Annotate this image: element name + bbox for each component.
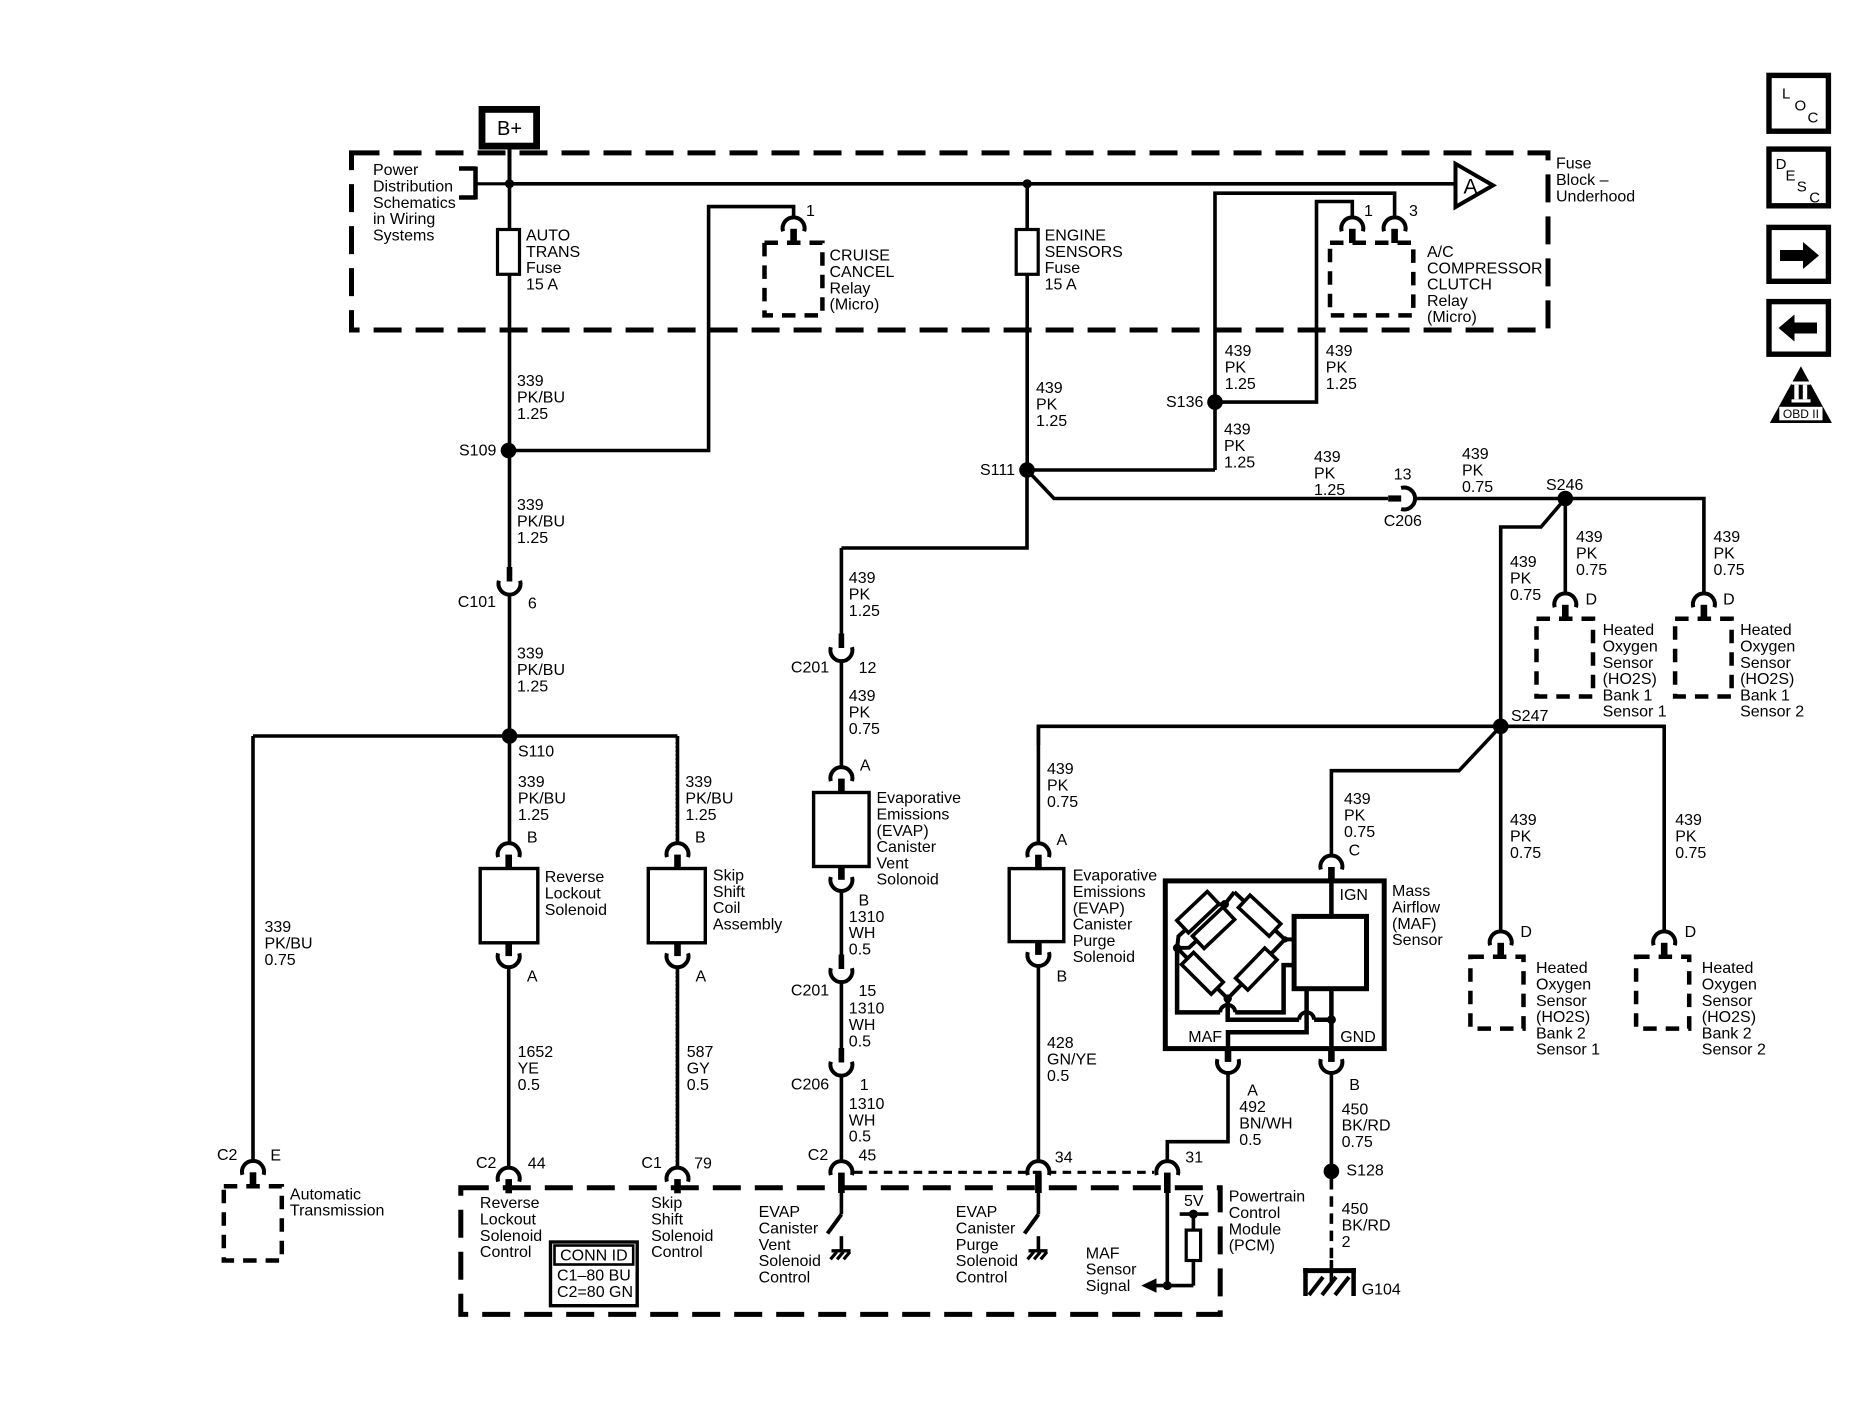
svg-text:12: 12 xyxy=(859,660,877,677)
wire skip shift to PCM C1-79 xyxy=(676,967,680,1168)
svg-text:MAF: MAF xyxy=(1188,1029,1222,1046)
svg-text:587: 587 xyxy=(687,1044,714,1061)
svg-text:A: A xyxy=(1247,1083,1258,1100)
svg-text:O: O xyxy=(1795,98,1807,115)
svg-text:34: 34 xyxy=(1055,1149,1073,1166)
svg-text:15 A: 15 A xyxy=(1045,276,1077,293)
wire S111 down-left to EVAP vent column xyxy=(841,470,1027,548)
svg-text:WH: WH xyxy=(849,1017,876,1034)
svg-text:(EVAP): (EVAP) xyxy=(877,823,929,840)
svg-text:(MAF): (MAF) xyxy=(1392,916,1436,933)
svg-text:B: B xyxy=(527,830,538,847)
svg-text:CONN ID: CONN ID xyxy=(560,1248,628,1265)
svg-text:C: C xyxy=(1808,110,1819,127)
resistor MAF pullup xyxy=(1186,1230,1200,1260)
svg-text:339: 339 xyxy=(517,646,544,663)
wire MAF sensor signal with arrow xyxy=(1166,1187,1170,1286)
wire C201-15 to C206-1 xyxy=(840,982,844,1048)
svg-text:Bank 1: Bank 1 xyxy=(1603,687,1653,704)
svg-text:0.75: 0.75 xyxy=(1342,1134,1373,1151)
svg-text:B: B xyxy=(695,830,706,847)
svg-text:PK: PK xyxy=(1314,466,1336,483)
svg-text:1.25: 1.25 xyxy=(1224,454,1255,471)
svg-text:PK/BU: PK/BU xyxy=(517,390,565,407)
svg-text:79: 79 xyxy=(694,1156,712,1173)
HO2S bank2 sensor1 pin D xyxy=(1490,931,1512,945)
svg-text:0.75: 0.75 xyxy=(1675,845,1706,862)
svg-text:OBD II: OBD II xyxy=(1783,407,1819,421)
wire purge B to PCM pin 34 xyxy=(1037,966,1041,1161)
solenoid EVAP Canister Purge box xyxy=(1009,869,1064,942)
svg-text:PK: PK xyxy=(1036,397,1058,414)
svg-text:PK: PK xyxy=(1462,463,1484,480)
svg-text:Control: Control xyxy=(956,1269,1008,1286)
connector C101 pin 6 xyxy=(507,567,513,582)
icon DESC xyxy=(1769,149,1828,206)
svg-text:WH: WH xyxy=(849,1112,876,1129)
svg-text:C2: C2 xyxy=(217,1147,238,1164)
svg-text:C2: C2 xyxy=(476,1155,497,1172)
svg-text:A: A xyxy=(1463,176,1477,199)
svg-text:1.25: 1.25 xyxy=(517,530,548,547)
svg-text:B: B xyxy=(1349,1077,1360,1094)
relay A/C COMPRESSOR CLUTCH pin 3 xyxy=(1384,217,1406,231)
PCM pin C2-45 xyxy=(830,1161,852,1175)
svg-text:1: 1 xyxy=(806,203,815,220)
svg-text:Solenoid: Solenoid xyxy=(956,1253,1018,1270)
solenoid Reverse Lockout box xyxy=(480,869,538,943)
connector line C2 pins 45-34-31 (dashed) xyxy=(854,1171,1154,1174)
wire to purge solenoid pin A xyxy=(1037,726,1041,843)
splice S136 xyxy=(1207,394,1223,410)
svg-text:Emissions: Emissions xyxy=(877,807,950,824)
svg-text:Sensor: Sensor xyxy=(1392,932,1443,949)
wire S247 diagonal to MAF IGN xyxy=(1331,726,1500,856)
svg-text:C1–80 BU: C1–80 BU xyxy=(557,1267,631,1284)
junction at ENGINE SENSORS fuse tap xyxy=(1023,179,1032,188)
svg-text:0.75: 0.75 xyxy=(1576,562,1607,579)
svg-text:Canister: Canister xyxy=(1073,917,1133,934)
table CONN ID xyxy=(551,1242,638,1306)
svg-text:C2: C2 xyxy=(808,1147,829,1164)
wire S128 to G104 (dashed) xyxy=(1330,1179,1334,1265)
svg-text:0.5: 0.5 xyxy=(687,1077,709,1094)
vent solenoid pin A xyxy=(830,767,852,781)
svg-text:Systems: Systems xyxy=(373,227,434,244)
svg-text:Fuse: Fuse xyxy=(1045,260,1081,277)
svg-text:0.75: 0.75 xyxy=(849,721,880,738)
wire S110 to automatic transmission connector xyxy=(251,736,255,1161)
svg-text:339: 339 xyxy=(685,774,712,791)
wire S110 horizontal xyxy=(253,734,678,738)
HO2S bank2 sensor2 pin D xyxy=(1653,931,1675,945)
splice S246 xyxy=(1558,491,1574,507)
svg-text:PK: PK xyxy=(1326,360,1348,377)
svg-text:Solenoid: Solenoid xyxy=(1073,949,1135,966)
svg-text:Relay: Relay xyxy=(830,280,871,297)
svg-text:0.75: 0.75 xyxy=(1344,824,1375,841)
svg-text:1.25: 1.25 xyxy=(1036,413,1067,430)
wire S111 to S136 riser xyxy=(1027,468,1215,472)
svg-text:D: D xyxy=(1685,924,1697,941)
svg-text:ENGINE: ENGINE xyxy=(1045,228,1106,245)
svg-text:COMPRESSOR: COMPRESSOR xyxy=(1427,260,1543,277)
skip shift coil pin B xyxy=(667,843,689,857)
svg-text:Oxygen: Oxygen xyxy=(1740,639,1795,656)
svg-text:GND: GND xyxy=(1340,1029,1376,1046)
coil Skip Shift Coil Assembly box xyxy=(648,869,705,943)
wire C101 to S110 xyxy=(508,595,512,737)
svg-text:1.25: 1.25 xyxy=(685,807,716,824)
svg-text:Oxygen: Oxygen xyxy=(1603,639,1658,656)
PCM internal vent driver switch xyxy=(840,1193,844,1215)
svg-text:MAF: MAF xyxy=(1086,1245,1120,1262)
svg-text:Bank 1: Bank 1 xyxy=(1740,687,1790,704)
svg-text:PK/BU: PK/BU xyxy=(265,936,313,953)
svg-text:Module: Module xyxy=(1229,1221,1282,1238)
wire AUTO TRANS fuse branch (B+ to S109) xyxy=(508,184,512,451)
svg-text:1: 1 xyxy=(860,1077,869,1094)
svg-text:Solenoid: Solenoid xyxy=(759,1253,821,1270)
svg-text:439: 439 xyxy=(1675,812,1702,829)
svg-text:PK: PK xyxy=(1576,546,1598,563)
svg-text:1310: 1310 xyxy=(849,1001,885,1018)
svg-text:GY: GY xyxy=(687,1061,710,1078)
svg-text:339: 339 xyxy=(518,774,545,791)
svg-text:Automatic: Automatic xyxy=(290,1186,361,1203)
svg-text:S128: S128 xyxy=(1346,1163,1383,1180)
svg-text:492: 492 xyxy=(1239,1099,1266,1116)
splice S110 xyxy=(502,728,518,744)
MAF bridge edge right-bottom with resistor xyxy=(1228,939,1285,998)
wire S109 to C101 xyxy=(508,451,512,568)
MAF bridge resistor R5 (bottom left edge) xyxy=(1182,952,1224,994)
splice S247 xyxy=(1493,719,1509,735)
purge solenoid pin A xyxy=(1027,843,1049,857)
svg-text:Block –: Block – xyxy=(1556,172,1609,189)
svg-text:Heated: Heated xyxy=(1603,622,1655,639)
MAF block GND lead xyxy=(1329,989,1334,1049)
svg-text:0.75: 0.75 xyxy=(1047,794,1078,811)
ground purge driver xyxy=(1029,1249,1048,1252)
splice S111 xyxy=(1019,462,1035,478)
svg-text:Schematics: Schematics xyxy=(373,195,456,212)
svg-text:Sensor 2: Sensor 2 xyxy=(1702,1042,1766,1059)
svg-text:Transmission: Transmission xyxy=(290,1203,385,1220)
svg-text:439: 439 xyxy=(1224,422,1251,439)
svg-text:450: 450 xyxy=(1342,1101,1369,1118)
svg-text:Purge: Purge xyxy=(956,1237,999,1254)
wire S247 to HO2S bank2 sensor1 xyxy=(1499,726,1503,931)
svg-text:0.5: 0.5 xyxy=(849,942,871,959)
svg-text:CLUTCH: CLUTCH xyxy=(1427,277,1492,294)
sensor Mass Airflow (MAF) box xyxy=(1165,881,1384,1049)
svg-text:Sensor: Sensor xyxy=(1740,655,1791,672)
svg-text:45: 45 xyxy=(859,1147,877,1164)
icon forward arrow xyxy=(1769,227,1828,281)
svg-text:1.25: 1.25 xyxy=(1225,376,1256,393)
svg-text:in Wiring: in Wiring xyxy=(373,211,435,228)
svg-text:E: E xyxy=(270,1147,281,1164)
svg-text:1.25: 1.25 xyxy=(1326,376,1357,393)
connector C206 pin 1 xyxy=(839,1048,845,1063)
wire S247 left to EVAP purge column xyxy=(1038,726,1500,745)
svg-text:15: 15 xyxy=(859,983,877,1000)
svg-text:Airflow: Airflow xyxy=(1392,900,1440,917)
svg-text:Canister: Canister xyxy=(759,1221,819,1238)
MAF bridge resistor R4 (bottom right edge) xyxy=(1236,948,1277,990)
wire vent B to C201-15 xyxy=(840,891,844,955)
svg-text:0.75: 0.75 xyxy=(1510,587,1541,604)
svg-text:15 A: 15 A xyxy=(526,276,558,293)
svg-text:S111: S111 xyxy=(980,462,1015,479)
svg-text:Control: Control xyxy=(480,1244,532,1261)
wire MAF A to PCM pin 31 xyxy=(1167,1073,1228,1161)
svg-text:PK: PK xyxy=(1675,829,1697,846)
connector C206 pin 13 xyxy=(1388,495,1401,501)
svg-text:1.25: 1.25 xyxy=(518,807,549,824)
PCM pin C2-44 xyxy=(498,1168,520,1182)
svg-text:D: D xyxy=(1586,592,1598,609)
svg-text:TRANS: TRANS xyxy=(526,244,580,261)
wire main feed bus B+ to arrow A xyxy=(510,182,1456,186)
svg-text:Distribution: Distribution xyxy=(373,179,453,196)
svg-text:Assembly: Assembly xyxy=(713,916,782,933)
svg-text:(Micro): (Micro) xyxy=(830,297,880,314)
svg-text:E: E xyxy=(1786,168,1796,185)
svg-text:Vent: Vent xyxy=(759,1237,792,1254)
svg-text:Emissions: Emissions xyxy=(1073,884,1146,901)
junction at B+ stem and bus xyxy=(505,179,514,188)
svg-text:S136: S136 xyxy=(1166,394,1203,411)
PCM pin 34 xyxy=(1027,1161,1049,1175)
svg-text:Solonoid: Solonoid xyxy=(877,872,939,889)
sensor Heated Oxygen Sensor Bank 1 Sensor 2 dashed box xyxy=(1675,619,1732,697)
svg-text:0.5: 0.5 xyxy=(1047,1068,1069,1085)
svg-text:439: 439 xyxy=(1326,343,1353,360)
svg-text:PK: PK xyxy=(849,705,871,722)
reverse lockout solenoid pin A xyxy=(505,943,512,956)
svg-text:Lockout: Lockout xyxy=(480,1212,537,1229)
svg-text:Control: Control xyxy=(759,1269,811,1286)
automatic transmission dashed box xyxy=(224,1186,282,1260)
relay CRUISE CANCEL pin 1 xyxy=(783,217,805,231)
MAF bridge top edge to parallel pair xyxy=(1225,892,1235,904)
svg-text:C2=80 GN: C2=80 GN xyxy=(557,1284,633,1301)
module Powertrain Control Module dashed box xyxy=(461,1188,1220,1315)
sensor Heated Oxygen Sensor Bank 1 Sensor 1 dashed box xyxy=(1537,619,1594,697)
svg-text:Sensor: Sensor xyxy=(1536,993,1587,1010)
svg-text:44: 44 xyxy=(528,1156,546,1173)
svg-text:439: 439 xyxy=(849,688,876,705)
svg-text:PK: PK xyxy=(1714,546,1736,563)
svg-text:L: L xyxy=(1782,86,1790,103)
svg-text:A: A xyxy=(860,758,871,775)
solenoid EVAP Canister Vent box xyxy=(814,793,870,867)
MAF internal IGN lead xyxy=(1329,881,1334,917)
svg-text:2: 2 xyxy=(1342,1234,1351,1251)
svg-text:Reverse: Reverse xyxy=(545,869,605,886)
wire S136 riser to A/C relay pin 3 xyxy=(1215,193,1395,470)
PCM pin C1-79 xyxy=(667,1168,689,1182)
svg-text:0.75: 0.75 xyxy=(265,952,296,969)
svg-text:Sensor 1: Sensor 1 xyxy=(1603,704,1667,721)
svg-text:BK/RD: BK/RD xyxy=(1342,1218,1391,1235)
svg-text:Sensor: Sensor xyxy=(1603,655,1654,672)
svg-text:Fuse: Fuse xyxy=(526,260,562,277)
svg-text:0.5: 0.5 xyxy=(1239,1132,1261,1149)
svg-text:IGN: IGN xyxy=(1340,887,1368,904)
svg-text:Purge: Purge xyxy=(1073,933,1116,950)
connector C201 pin 12 xyxy=(840,548,844,634)
svg-text:439: 439 xyxy=(1462,446,1489,463)
skip shift coil pin A xyxy=(674,943,681,956)
svg-text:C206: C206 xyxy=(791,1077,829,1094)
svg-text:(Micro): (Micro) xyxy=(1427,309,1477,326)
connector C201 pin 15 xyxy=(839,955,845,970)
svg-text:339: 339 xyxy=(517,373,544,390)
wire S110 to reverse lockout solenoid xyxy=(508,736,512,843)
svg-text:Canister: Canister xyxy=(877,839,937,856)
svg-text:439: 439 xyxy=(1036,380,1063,397)
svg-text:PK: PK xyxy=(1224,438,1246,455)
svg-text:439: 439 xyxy=(1225,343,1252,360)
svg-text:Fuse: Fuse xyxy=(1556,156,1592,173)
svg-text:Vent: Vent xyxy=(877,855,910,872)
wire C206-1 to PCM C2-45 xyxy=(840,1076,844,1162)
svg-text:5V: 5V xyxy=(1184,1193,1204,1210)
svg-text:1.25: 1.25 xyxy=(517,406,548,423)
wire S246 to HO2S bank1 sensor1 xyxy=(1564,499,1568,594)
svg-text:PK/BU: PK/BU xyxy=(517,514,565,531)
svg-text:C201: C201 xyxy=(791,660,829,677)
svg-text:C101: C101 xyxy=(458,594,496,611)
wire cruise relay feed from S109 xyxy=(510,207,794,451)
splice S109 xyxy=(501,443,517,459)
svg-text:A: A xyxy=(1057,832,1068,849)
MAF pin B (ground) xyxy=(1328,1049,1335,1062)
svg-text:1652: 1652 xyxy=(518,1044,554,1061)
svg-text:PK: PK xyxy=(1510,571,1532,588)
splice S128 xyxy=(1324,1164,1340,1180)
icon LOC xyxy=(1769,75,1828,131)
svg-text:Heated: Heated xyxy=(1536,960,1588,977)
svg-text:Control: Control xyxy=(651,1244,703,1261)
svg-text:S247: S247 xyxy=(1511,708,1548,725)
icon back arrow xyxy=(1769,302,1828,355)
svg-text:A/C: A/C xyxy=(1427,244,1454,261)
svg-text:Shift: Shift xyxy=(713,884,746,901)
MAF pin C (IGN) xyxy=(1320,856,1342,870)
svg-text:D: D xyxy=(1723,592,1735,609)
svg-text:CRUISE: CRUISE xyxy=(830,248,890,265)
svg-text:Oxygen: Oxygen xyxy=(1702,977,1757,994)
wire reverse lockout to PCM C2-44 xyxy=(507,967,511,1168)
svg-text:1.25: 1.25 xyxy=(1314,482,1345,499)
MAF bridge edge bottom-left with resistor xyxy=(1177,948,1228,999)
svg-text:439: 439 xyxy=(1714,529,1741,546)
svg-text:EVAP: EVAP xyxy=(956,1204,998,1221)
svg-text:PK: PK xyxy=(1047,778,1069,795)
svg-text:WH: WH xyxy=(849,925,876,942)
svg-text:CANCEL: CANCEL xyxy=(830,264,895,281)
fuse AUTO TRANS 15A xyxy=(498,230,520,275)
svg-text:PK/BU: PK/BU xyxy=(685,791,733,808)
svg-text:(HO2S): (HO2S) xyxy=(1603,671,1657,688)
sensor Heated Oxygen Sensor Bank 2 Sensor 1 dashed box xyxy=(1470,957,1523,1029)
svg-text:EVAP: EVAP xyxy=(759,1204,801,1221)
sensor Heated Oxygen Sensor Bank 2 Sensor 2 dashed box xyxy=(1636,957,1689,1029)
svg-text:Shift: Shift xyxy=(651,1212,684,1229)
wire S136 to A/C relay pin 1 xyxy=(1215,202,1352,403)
svg-text:S: S xyxy=(1797,179,1807,196)
svg-text:Skip: Skip xyxy=(713,868,744,885)
svg-text:C: C xyxy=(1809,190,1820,207)
wire S111 diagonal to C206 xyxy=(1027,470,1388,499)
svg-text:PK/BU: PK/BU xyxy=(517,662,565,679)
svg-text:3: 3 xyxy=(1409,203,1418,220)
svg-text:0.75: 0.75 xyxy=(1462,479,1493,496)
MAF wire bottom vertex to GND lead xyxy=(1228,999,1299,1020)
connector C2 pin E at automatic transmission xyxy=(242,1161,264,1175)
svg-text:Bank 2: Bank 2 xyxy=(1536,1025,1586,1042)
svg-text:C1: C1 xyxy=(641,1155,662,1172)
svg-text:Sensor: Sensor xyxy=(1702,993,1753,1010)
svg-text:S110: S110 xyxy=(518,744,554,761)
relay A/C COMPRESSOR CLUTCH (Micro) dashed box xyxy=(1330,243,1413,316)
icon OBD II triangle xyxy=(1770,366,1832,423)
svg-text:1.25: 1.25 xyxy=(517,678,548,695)
svg-text:C201: C201 xyxy=(791,983,829,1000)
MAF bridge right vertex to block xyxy=(1285,937,1294,941)
svg-text:1.25: 1.25 xyxy=(849,603,880,620)
wire C206 to S246 xyxy=(1416,497,1566,501)
PCM internal purge driver switch xyxy=(1037,1193,1041,1215)
svg-text:439: 439 xyxy=(849,570,876,587)
svg-text:428: 428 xyxy=(1047,1035,1074,1052)
svg-text:(HO2S): (HO2S) xyxy=(1702,1009,1756,1026)
svg-text:YE: YE xyxy=(518,1061,539,1078)
svg-text:Solenoid: Solenoid xyxy=(651,1228,713,1245)
svg-text:G104: G104 xyxy=(1362,1282,1401,1299)
MAF block output to MAF pin xyxy=(1228,989,1307,1049)
MAF bridge resistor R3 (top right edge) xyxy=(1238,895,1280,936)
svg-text:439: 439 xyxy=(1314,449,1341,466)
power node B+ box xyxy=(482,109,537,146)
svg-text:(EVAP): (EVAP) xyxy=(1073,900,1125,917)
wire C201-12 to vent solenoid pin A xyxy=(840,661,844,767)
svg-text:0.75: 0.75 xyxy=(1714,562,1745,579)
svg-text:BK/RD: BK/RD xyxy=(1342,1118,1391,1135)
MAF bridge resistor R2 (parallel pair lower) xyxy=(1192,907,1234,948)
svg-text:31: 31 xyxy=(1185,1149,1203,1166)
ground G104 xyxy=(1330,1260,1334,1283)
svg-text:Solenoid: Solenoid xyxy=(480,1228,542,1245)
svg-text:Evaporative: Evaporative xyxy=(1073,868,1158,885)
svg-text:(HO2S): (HO2S) xyxy=(1740,671,1794,688)
svg-text:Canister: Canister xyxy=(956,1221,1016,1238)
svg-text:C206: C206 xyxy=(1384,513,1422,530)
fuse ENGINE SENSORS 15A xyxy=(1016,230,1038,275)
svg-text:450: 450 xyxy=(1342,1201,1369,1218)
MAF bridge junction dots xyxy=(1221,900,1229,908)
svg-text:Coil: Coil xyxy=(713,900,741,917)
svg-text:B: B xyxy=(859,893,870,910)
svg-text:A: A xyxy=(527,968,538,985)
fuse block underhood dashed box xyxy=(352,153,1549,330)
wire S246 diagonal to S247 xyxy=(1501,499,1566,727)
svg-text:(HO2S): (HO2S) xyxy=(1536,1009,1590,1026)
